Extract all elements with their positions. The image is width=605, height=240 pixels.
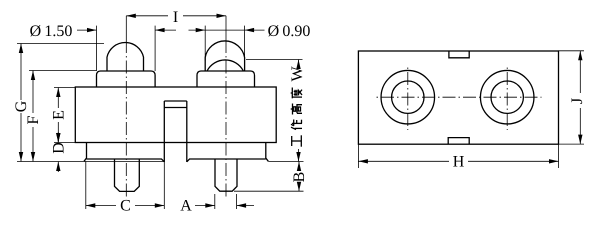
F arrows	[31, 71, 35, 81]
dim H extension lines	[357, 144, 359, 168]
J arrows	[578, 51, 582, 61]
label W	[289, 66, 306, 82]
right hole inner circle	[491, 81, 523, 113]
ext line body bottom (E/D)	[54, 142, 75, 144]
right hole outer circle	[480, 70, 534, 124]
bottom flange left block	[84, 143, 164, 162]
dim H line	[358, 160, 449, 162]
ext line compressed top (W)	[246, 59, 303, 61]
dim B line	[298, 162, 300, 171]
dim I extension lines	[125, 16, 127, 40]
right plunger dome compressed	[207, 60, 243, 71]
horizontal centerline both holes	[374, 96, 542, 98]
centerline left pin	[125, 40, 127, 197]
svg-text:E: E	[50, 110, 67, 120]
dim I line	[126, 15, 168, 17]
svg-text:D: D	[50, 142, 67, 154]
svg-text:C: C	[120, 198, 131, 215]
vertical text working height W	[291, 88, 302, 147]
ext line base top (F)	[29, 70, 97, 72]
dia0.90 arrows	[196, 28, 206, 32]
I arrows	[126, 14, 136, 18]
thin lines: extensions, dimensions, centerlines	[17, 16, 304, 209]
right plunger dome extended	[205, 41, 244, 71]
svg-text:Ø 0.90: Ø 0.90	[268, 23, 311, 40]
dim E line	[57, 88, 59, 109]
left solder pin	[115, 159, 140, 191]
bottom tab notch	[448, 138, 469, 145]
svg-text:G: G	[13, 100, 30, 112]
A arrows	[205, 203, 215, 207]
right solder pin	[215, 159, 237, 191]
dim A extension lines	[214, 194, 216, 209]
svg-text:I: I	[173, 9, 178, 26]
svg-text:J: J	[569, 98, 586, 104]
dim D arrows stems	[57, 132, 59, 143]
glyph gao	[291, 104, 302, 115]
G arrows	[19, 44, 23, 54]
centerline right pin	[225, 40, 227, 197]
svg-text:H: H	[453, 153, 465, 170]
ext line lip level right (B/W)	[268, 161, 303, 163]
housing outline top view	[358, 51, 558, 144]
left hole outer circle	[381, 70, 435, 124]
right plunger base flange	[197, 71, 255, 87]
svg-text:W: W	[289, 66, 306, 82]
dia 1.50 extension lines	[96, 26, 98, 71]
dia 0.90 extension lines	[204, 26, 206, 61]
D arrows	[56, 133, 60, 143]
bottom flange right block	[187, 143, 268, 162]
dim J line	[579, 51, 581, 93]
dim J extension lines	[559, 50, 585, 52]
glyph gong	[292, 135, 302, 146]
dim A stubs	[195, 205, 215, 207]
E arrows	[56, 88, 60, 98]
dia 1.50 leader lines	[77, 29, 97, 31]
left plunger dome	[107, 42, 144, 71]
dim F line	[32, 71, 34, 114]
center slot walls	[164, 101, 187, 162]
ext line lip level left (D/G/F)	[17, 161, 164, 163]
ext line dome top (G)	[17, 43, 104, 45]
svg-text:F: F	[25, 115, 42, 124]
ext line pin bottom (B)	[234, 190, 304, 192]
H arrows	[358, 159, 368, 163]
dim W line	[298, 60, 300, 67]
dim C extension lines	[85, 161, 87, 209]
glyph du	[291, 88, 302, 99]
vertical centerline left hole	[407, 65, 409, 131]
B arrows	[297, 162, 301, 172]
top tab notch	[449, 51, 469, 58]
dimension labels left view	[13, 9, 310, 215]
dia 0.90 leader lines	[189, 29, 245, 31]
svg-text:B: B	[291, 172, 308, 183]
svg-text:Ø 1.50: Ø 1.50	[30, 23, 73, 40]
dim C line	[86, 205, 116, 207]
svg-text:A: A	[180, 198, 192, 215]
W arrows	[296, 60, 300, 70]
glyph zuo	[291, 120, 302, 130]
left hole inner circle	[392, 81, 424, 113]
arrowheads	[19, 14, 301, 208]
dim G line	[20, 44, 22, 101]
ext line body top (E)	[54, 87, 75, 89]
vertical centerline right hole	[506, 65, 508, 131]
C arrows	[86, 203, 96, 207]
left plunger base flange	[97, 71, 156, 87]
body housing (side view)	[75, 87, 276, 143]
dia1.50 arrows	[87, 28, 97, 32]
